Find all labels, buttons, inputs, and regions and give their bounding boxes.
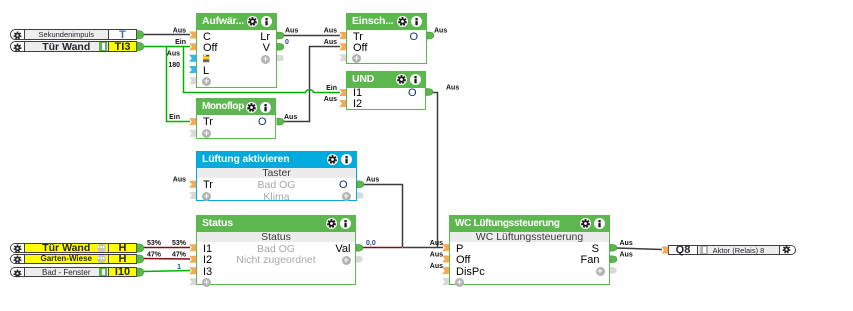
- svg-text:Aus: Aus: [173, 177, 186, 184]
- svg-text:Aus: Aus: [620, 240, 633, 247]
- svg-text:Aus: Aus: [284, 114, 297, 121]
- svg-text:Aus: Aus: [446, 84, 459, 91]
- svg-text:53%: 53%: [172, 240, 187, 247]
- svg-text:0,0: 0,0: [366, 240, 376, 247]
- svg-text:47%: 47%: [172, 252, 187, 259]
- svg-text:Aus: Aus: [167, 51, 180, 58]
- svg-text:Aus: Aus: [620, 252, 633, 259]
- svg-text:0: 0: [285, 39, 289, 46]
- svg-text:Ein: Ein: [169, 114, 180, 121]
- svg-text:Aus: Aus: [324, 28, 337, 35]
- svg-text:Aus: Aus: [324, 39, 337, 46]
- svg-text:180: 180: [168, 62, 180, 69]
- svg-text:Ein: Ein: [175, 39, 186, 46]
- svg-text:53%: 53%: [147, 240, 162, 247]
- svg-text:Aus: Aus: [430, 240, 443, 247]
- svg-text:Aus: Aus: [434, 28, 447, 35]
- svg-text:Aus: Aus: [430, 263, 443, 270]
- svg-text:Ein: Ein: [326, 85, 337, 92]
- svg-text:47%: 47%: [147, 252, 162, 259]
- svg-text:Aus: Aus: [324, 96, 337, 103]
- svg-text:Aus: Aus: [173, 28, 186, 35]
- svg-text:Aus: Aus: [430, 252, 443, 259]
- svg-text:Aus: Aus: [285, 28, 298, 35]
- svg-text:1: 1: [177, 264, 181, 271]
- svg-text:Aus: Aus: [366, 177, 379, 184]
